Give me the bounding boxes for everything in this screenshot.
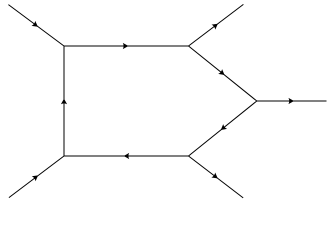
arrow on loop bottom edge — [124, 153, 130, 159]
wire loop bottom edge — [64, 155, 189, 157]
wire external leg top-left incoming — [8, 5, 64, 46]
arrow on loop lower-right edge — [219, 124, 227, 132]
arrow on external leg bottom-right — [211, 173, 219, 181]
wire loop left edge — [63, 46, 65, 156]
arrow on external leg top-right — [212, 21, 220, 29]
wire loop lower-right edge — [189, 101, 257, 156]
wire loop upper-right edge — [189, 46, 257, 101]
wire external leg top-right outgoing — [189, 4, 244, 46]
wire external leg bottom-right outgoing — [189, 156, 244, 198]
wire loop top edge — [64, 45, 189, 47]
arrow on loop upper-right edge — [218, 69, 226, 77]
arrow on external leg bottom-left — [32, 173, 40, 181]
arrow on external leg middle-right — [288, 98, 294, 104]
arrow on loop left edge — [61, 99, 67, 105]
arrow on loop top edge — [123, 43, 129, 49]
wire external leg bottom-left incoming — [9, 156, 64, 198]
wire external leg middle-right outgoing — [257, 100, 327, 102]
arrow on external leg top-left — [32, 21, 40, 29]
